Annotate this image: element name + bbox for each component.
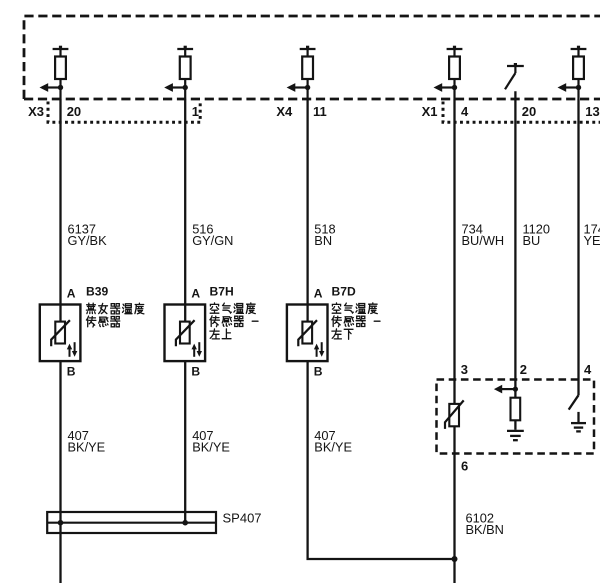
F-X3/1 lead — [184, 79, 186, 99]
svg-text:BK/BN: BK/BN — [466, 522, 504, 537]
F-X4/11 terminal T-bar — [300, 46, 316, 57]
svg-text:BN: BN — [314, 233, 332, 248]
wire label 6137 GY/BK — [68, 221, 108, 248]
switch lever (open, pin 4 lower) — [569, 395, 579, 409]
sensor B7D variability arrows — [314, 342, 325, 357]
wire label 518 BN — [314, 221, 335, 248]
junction dot ground net — [452, 556, 458, 562]
svg-text:BU/WH: BU/WH — [462, 233, 505, 248]
connector X1 dotted outline — [443, 102, 600, 123]
F-X1/4 fuse body — [449, 57, 460, 80]
sensor B7D outline box — [287, 305, 328, 362]
F-X1/4 lead — [453, 79, 455, 99]
wire X1-4 to NTC (734 BU/WH) — [453, 99, 455, 404]
sensor assembly enclosure (dashed) — [437, 380, 595, 454]
B39 chinese name: evaporator temperature sensor — [86, 303, 143, 327]
svg-text:2: 2 — [520, 362, 527, 377]
splice SP407 bus — [47, 512, 216, 533]
junction dot SP407 / wire 1 — [58, 520, 64, 526]
B7D chinese name: air temperature sensor - lower left — [332, 303, 380, 339]
sensor B7D thermistor diagonal — [298, 320, 317, 346]
junction dot at F-X3/20 arrow — [58, 85, 63, 90]
svg-text:BK/YE: BK/YE — [192, 440, 230, 455]
switch lower contact stub — [577, 412, 579, 423]
svg-text:20: 20 — [67, 104, 81, 119]
wire X1-20 down (1120 BU) — [514, 91, 516, 397]
signal arrow at F-X4/11 — [287, 83, 308, 92]
wire label 734 BU/WH — [462, 221, 505, 248]
svg-text:GY/BK: GY/BK — [68, 233, 108, 248]
wire resistor to ground — [514, 420, 516, 430]
svg-text:20: 20 — [522, 104, 536, 119]
sensor B7H thermistor body — [180, 322, 190, 344]
junction dot SP407 / wire 2 — [182, 520, 188, 526]
wire label 1746 YE (clipped) — [584, 221, 600, 248]
connector X3 dotted outline — [48, 102, 200, 123]
signal arrow at F-X3/1 — [164, 83, 185, 92]
sensor B39 thermistor diagonal — [51, 320, 70, 346]
junction dot at pin 2 arrow — [513, 387, 518, 392]
svg-text:BU: BU — [523, 233, 541, 248]
svg-text:X3: X3 — [28, 104, 44, 119]
svg-text:A: A — [314, 287, 323, 301]
signal arrow at F-X1/13 — [558, 83, 579, 92]
svg-text:B: B — [191, 364, 200, 378]
svg-text:X1: X1 — [422, 104, 438, 119]
F-X3/20 terminal T-bar — [53, 46, 69, 57]
switch terminal X1-20 T-bar — [507, 63, 524, 73]
F-X3/20 fuse body — [55, 57, 66, 80]
svg-text:4: 4 — [461, 104, 469, 119]
svg-text:GY/GN: GY/GN — [192, 233, 233, 248]
wire X4-11 to B7D (518 BN) — [306, 99, 308, 322]
wire label 407 BK/YE mid — [192, 428, 230, 455]
NTC thermistor body (pin 3) — [449, 404, 459, 426]
F-X4/11 fuse body — [302, 57, 313, 80]
sensor B39 variability arrows — [67, 342, 78, 357]
svg-text:B39: B39 — [86, 285, 108, 299]
NTC thermistor diagonal (pin 3) — [445, 400, 464, 429]
svg-text:X4: X4 — [276, 104, 293, 119]
junction dot at F-X1/4 arrow — [452, 85, 457, 90]
svg-text:3: 3 — [461, 362, 468, 377]
signal arrow at F-X1/4 — [434, 83, 455, 92]
ground symbol (pin 2) — [507, 431, 524, 440]
svg-text:B: B — [67, 364, 76, 378]
signal arrow at pin 2 — [494, 385, 516, 394]
wire label 1120 BU — [523, 221, 551, 248]
svg-text:6: 6 — [461, 459, 468, 474]
wire B39 pin B to SP407 (407 BK/YE) — [59, 361, 61, 583]
svg-text:YE/G: YE/G — [584, 233, 600, 248]
wire B7H pin B to SP407 (407 BK/YE) — [184, 361, 186, 523]
sensor B39 thermistor body — [55, 322, 65, 344]
B7H chinese name: air temperature sensor - upper left — [210, 303, 258, 339]
svg-text:B7D: B7D — [332, 285, 356, 299]
F-X1/13 fuse body — [573, 57, 584, 80]
F-X3/1 fuse body — [180, 57, 191, 80]
ground symbol (pin 4) — [571, 423, 586, 431]
control module enclosure (dashed) — [24, 16, 600, 99]
sensor B7D thermistor body — [302, 322, 312, 344]
wire label 407 BK/YE left — [68, 428, 106, 455]
junction dot at F-X3/1 arrow — [183, 85, 188, 90]
wire B7D pin B elbow to ground junction (407 BK/YE) — [308, 361, 455, 559]
svg-text:1: 1 — [192, 104, 199, 119]
svg-text:BK/YE: BK/YE — [68, 440, 106, 455]
F-X4/11 lead — [307, 79, 309, 99]
resistor body (pin 2) — [511, 398, 521, 421]
wire X1-13 to switch (YE) — [577, 99, 579, 395]
wire X3-20 to B39 (6137 GY/BK) — [59, 99, 61, 322]
F-X1/13 lead — [577, 79, 579, 99]
F-X3/1 terminal T-bar — [177, 46, 193, 57]
svg-text:A: A — [67, 287, 76, 301]
F-X1/4 terminal T-bar — [447, 46, 463, 57]
F-X3/20 lead — [59, 79, 61, 99]
sensor B7H thermistor diagonal — [176, 320, 195, 346]
junction dot at F-X1/13 arrow — [576, 85, 581, 90]
sensor B7H variability arrows — [192, 342, 203, 357]
sensor B7H outline box — [165, 305, 206, 362]
svg-text:A: A — [191, 287, 200, 301]
svg-text:BK/YE: BK/YE — [314, 440, 352, 455]
wire label 516 GY/GN — [192, 221, 233, 248]
wire label 6102 BK/BN — [466, 510, 504, 537]
svg-text:B7H: B7H — [210, 285, 234, 299]
F-X1/13 terminal T-bar — [571, 46, 587, 57]
sensor B39 outline box — [40, 305, 81, 362]
svg-text:B: B — [314, 364, 323, 378]
svg-text:SP407: SP407 — [223, 510, 262, 525]
junction dot at F-X4/11 arrow — [305, 85, 310, 90]
switch lever (open, top) — [505, 73, 515, 89]
signal arrow at F-X3/20 — [40, 83, 61, 92]
svg-text:11: 11 — [313, 104, 327, 119]
wire label 407 BK/YE right — [314, 428, 352, 455]
wire NTC to ground junction (6102 BK/BN) — [453, 426, 455, 583]
svg-text:4: 4 — [584, 362, 592, 377]
wire X3-1 to B7H (516 GY/GN) — [184, 99, 186, 322]
svg-text:13: 13 — [585, 104, 599, 119]
